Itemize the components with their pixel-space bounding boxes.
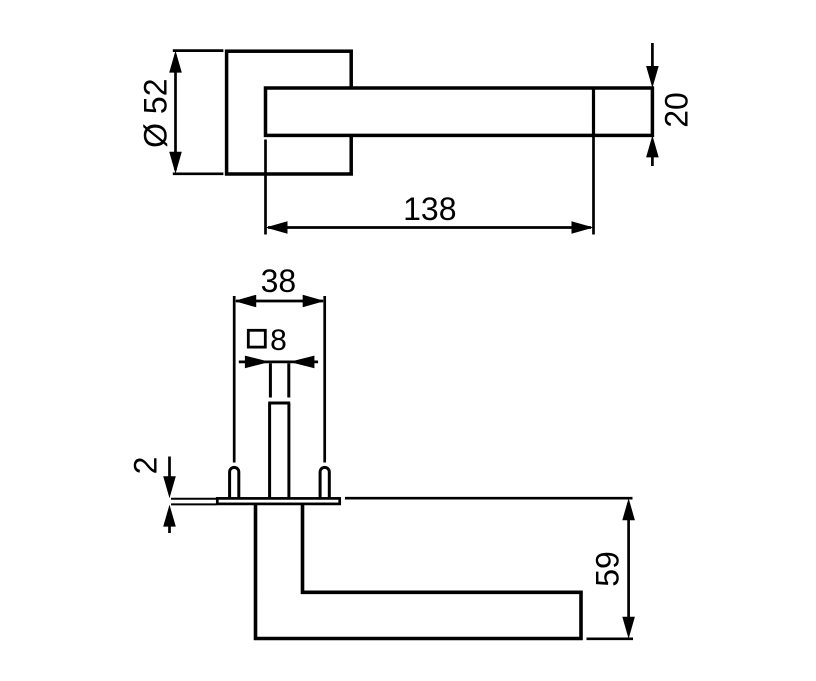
handle side profile (neck and grip): [256, 502, 582, 639]
arrow up onto plate (2): [163, 505, 176, 527]
spindle upper right edge: [287, 363, 290, 397]
svg-text:2: 2: [127, 457, 163, 475]
svg-text:Ø 52: Ø 52: [138, 79, 174, 148]
dimension line 8: [239, 361, 318, 364]
joint line on bar: [592, 88, 595, 135]
arrow down onto bar (20): [646, 66, 659, 88]
square symbol (8 mm spindle): [248, 330, 265, 347]
dimension tail top (2 dim): [168, 457, 171, 479]
svg-text:8: 8: [270, 324, 287, 357]
extension line left (138 dim): [264, 140, 267, 235]
arrow left (38): [234, 295, 256, 308]
arrow down (59): [622, 617, 635, 639]
rose plate (side view): [217, 498, 339, 504]
extension line bottom (diameter 52 dim): [173, 172, 224, 175]
dimension tail bottom (20 dim): [651, 155, 654, 166]
arrow up (52): [169, 51, 182, 73]
square rose outline (top view): [227, 51, 352, 174]
arrow up onto bar (20): [646, 135, 659, 157]
svg-text:38: 38: [261, 263, 297, 299]
extension line bottom (2 dim): [171, 503, 217, 505]
arrow left (138): [266, 221, 288, 234]
arrow inward left (8): [245, 356, 270, 369]
arrow right (138): [572, 221, 594, 234]
extension line top (59 dim): [345, 497, 633, 500]
extension line left (38 dim): [233, 296, 236, 463]
dimension line 59: [627, 503, 630, 634]
arrow inward right (8): [289, 356, 314, 369]
spindle lower section: [268, 403, 290, 499]
spindle upper left edge: [269, 363, 272, 397]
dimension line 38: [236, 300, 323, 303]
left fixing lug: [230, 467, 239, 498]
extension line right (138 dim): [592, 136, 595, 235]
arrow down (52): [169, 152, 182, 174]
arrow up (59): [622, 498, 635, 520]
svg-text:138: 138: [403, 191, 456, 227]
lever bar outline (top view): [266, 88, 653, 135]
arrow down onto plate (2): [163, 476, 176, 498]
svg-text:59: 59: [589, 551, 625, 587]
dimension tail bottom (2 dim): [168, 525, 171, 533]
dimension line 138: [268, 226, 591, 229]
svg-text:20: 20: [658, 92, 694, 128]
arrow right (38): [303, 295, 325, 308]
dimension line diameter 52: [174, 55, 177, 170]
right fixing lug: [320, 467, 329, 498]
extension line top (diameter 52 dim): [173, 49, 224, 52]
extension line bottom (59 dim): [587, 637, 634, 640]
extension line right (38 dim): [323, 296, 326, 463]
extension line top (2 dim): [171, 498, 217, 500]
dimension tail top (20 dim): [651, 43, 654, 68]
